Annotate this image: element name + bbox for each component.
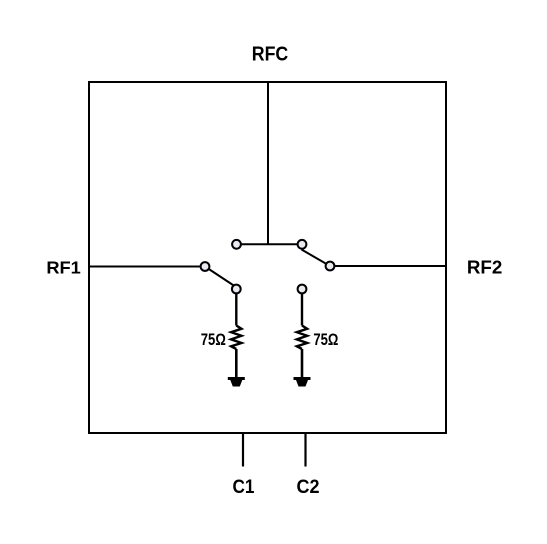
wire switch arm connecting RFC bar to RF2 [302, 250, 331, 267]
wire lead from contact to resistor R1 [235, 293, 237, 325]
contact circle top of resistor R1 [232, 285, 241, 294]
wire switch arm connecting RF1 to resistor R1 [205, 267, 236, 288]
svg-text:C2: C2 [297, 476, 320, 498]
wire stub control C2 [304, 433, 306, 467]
contact circle top of resistor R2 [298, 285, 307, 294]
svg-text:RFC: RFC [252, 44, 289, 66]
resistor R1 75 ohm zigzag [231, 326, 241, 350]
ground symbol under R2 [294, 377, 311, 387]
svg-text:C1: C1 [233, 476, 255, 498]
ground symbol under R1 [228, 377, 245, 387]
svg-text:RF2: RF2 [467, 257, 503, 277]
resistor R2 75 ohm zigzag [297, 326, 307, 350]
enclosure box (switch body outline) [89, 82, 446, 433]
wire lead from contact to resistor R2 [301, 293, 303, 325]
wire RFC vertical from top edge to common bar [267, 82, 269, 245]
wire stub control C1 [242, 433, 244, 467]
wire common bar between contacts [237, 243, 303, 245]
contact circle on RF1 line [201, 262, 210, 271]
wire lead from resistor R1 to ground [235, 349, 238, 378]
svg-text:75Ω: 75Ω [201, 331, 226, 349]
wire RF1 horizontal [89, 266, 205, 268]
svg-text:RF1: RF1 [46, 257, 81, 277]
wire lead from resistor R2 to ground [301, 349, 304, 378]
contact circle left end of RFC bar [232, 240, 241, 249]
wire RF2 horizontal [330, 265, 446, 267]
contact circle on RF2 line [326, 262, 335, 271]
svg-text:75Ω: 75Ω [313, 331, 338, 349]
contact circle right end of RFC bar [298, 240, 307, 249]
